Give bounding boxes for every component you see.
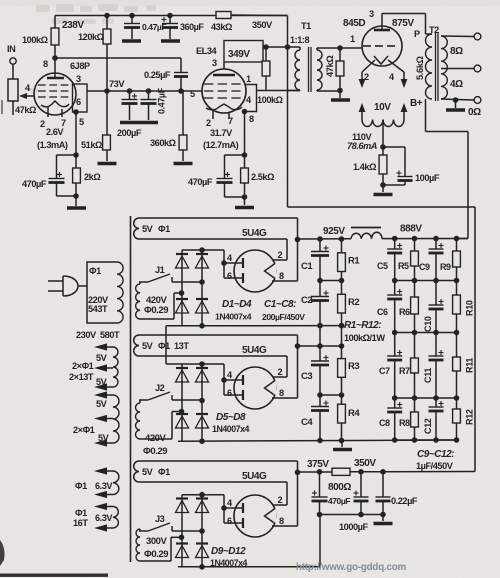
node output unit3 bbox=[295, 470, 301, 476]
winding 10V bbox=[359, 103, 408, 127]
node AC left unit2 bbox=[179, 409, 185, 415]
wire 350V feed bbox=[288, 16, 476, 472]
label pin5 EL34 bbox=[190, 89, 195, 99]
label pin8 tube unit1 bbox=[279, 271, 284, 281]
node C-col 325.6 bbox=[317, 323, 323, 329]
diode D2 bbox=[196, 254, 209, 268]
node AC left unit3 bbox=[179, 535, 185, 541]
label J1 bbox=[155, 265, 165, 275]
ground T1 bbox=[331, 91, 350, 101]
node R-col 395 bbox=[339, 392, 345, 398]
label pin1 EL34 bbox=[246, 74, 251, 84]
label pin3 EL34 bbox=[212, 58, 217, 68]
node AC left unit1 bbox=[179, 290, 185, 296]
label C12 bbox=[423, 418, 433, 434]
winding 5V loop unit1 bbox=[134, 218, 298, 239]
label pin4 U1 bbox=[25, 83, 31, 93]
terminal 4ohm bbox=[474, 65, 481, 72]
wire 888V rail bbox=[382, 238, 468, 240]
wire bridge to anodes unit3 bbox=[202, 495, 224, 508]
tube U3 845 bbox=[362, 14, 402, 67]
label R10 bbox=[465, 300, 475, 316]
label pin2 tube unit2 bbox=[278, 367, 283, 377]
node rail 120k bbox=[104, 13, 110, 19]
node right bank 456.5,398 bbox=[454, 395, 460, 401]
ground T2 bbox=[446, 100, 465, 110]
label 238V bbox=[62, 20, 84, 31]
label 47k 845 bbox=[325, 56, 335, 78]
label pin8 U1 bbox=[43, 59, 48, 69]
label C9-C12 note bbox=[416, 449, 454, 471]
label pin2 EL34 bbox=[206, 118, 211, 128]
node pin8 EL34 bbox=[242, 109, 248, 115]
label 5.6k bbox=[415, 56, 425, 80]
label C10 bbox=[423, 316, 433, 332]
label 2k bbox=[84, 172, 100, 182]
label 220V bbox=[88, 295, 109, 305]
diode D5 bbox=[176, 368, 189, 382]
label pin8 tube unit2 bbox=[279, 388, 284, 398]
wire cathode U1 bbox=[75, 112, 77, 155]
node right bank 456.5,332.5 bbox=[454, 330, 460, 336]
label Φ0.29 unit3 bbox=[144, 549, 168, 560]
node C-col 280.5 bbox=[317, 278, 323, 284]
resistor R8 bbox=[411, 398, 419, 440]
label 5V W1b bbox=[96, 377, 108, 387]
mains plug bbox=[48, 276, 87, 296]
label 5V W1a bbox=[96, 353, 108, 363]
label pin4 EL34 bbox=[246, 95, 252, 105]
label pin4 unit3 bbox=[227, 498, 233, 508]
node bridge top unit2 bbox=[199, 361, 205, 367]
node R-col 325.6 bbox=[339, 323, 345, 329]
label 51k bbox=[81, 140, 102, 150]
node right bank 456.5,280.5 bbox=[454, 278, 460, 284]
label R4 bbox=[348, 408, 360, 419]
label J3 bbox=[155, 514, 165, 524]
node anode bracket unit3 bbox=[221, 505, 227, 511]
tube U1 6J8P bbox=[34, 58, 76, 117]
label pin2 845 bbox=[364, 72, 369, 82]
resistor 51k divider bottom bbox=[98, 91, 117, 164]
resistor R12 bbox=[453, 398, 461, 440]
wire stack link unit1-unit2 bbox=[166, 326, 182, 364]
node og2 bbox=[358, 512, 364, 518]
label R1 bbox=[348, 256, 360, 267]
label 2x13T W1 bbox=[69, 372, 94, 382]
node R-col 346 bbox=[339, 343, 345, 349]
label D5~D8 unit2 bbox=[216, 412, 246, 423]
node bridge2 bottom bbox=[199, 438, 205, 444]
node right bank 394.7,440 bbox=[392, 437, 398, 443]
label 375V bbox=[307, 459, 329, 470]
label 100k bbox=[22, 35, 48, 45]
transformer T1 bbox=[288, 47, 341, 92]
label C4 bbox=[301, 417, 313, 428]
label 4ohm bbox=[450, 79, 463, 90]
capacitor C12 bbox=[429, 398, 444, 440]
wire anode 845 bbox=[382, 14, 426, 35]
wire bridge to anodes unit1 bbox=[202, 250, 224, 263]
resistor 43k bbox=[216, 12, 288, 19]
label J2 bbox=[155, 383, 165, 393]
label 360uF bbox=[180, 22, 204, 32]
watermark smudge bbox=[30, 4, 156, 93]
primary box 220V bbox=[87, 262, 123, 323]
label pin2 tube unit1 bbox=[278, 250, 283, 260]
label 16T W4 bbox=[73, 518, 88, 528]
winding 5V-5V W1 bbox=[94, 343, 118, 390]
label 200µF/450V unit1 bbox=[262, 312, 305, 322]
node right bank 414.5,332.5 bbox=[412, 330, 418, 336]
wire pin2 unit1 bbox=[273, 239, 287, 260]
label T2 bbox=[429, 25, 439, 35]
label pin1 845 bbox=[350, 34, 355, 44]
label IN bbox=[7, 44, 16, 54]
node pin5 U1 bbox=[73, 109, 79, 115]
wire anode U1 to cap bbox=[55, 58, 181, 73]
node cathode bottom1 bbox=[73, 193, 79, 199]
label P bbox=[414, 29, 420, 39]
node T1 sec bottom bbox=[337, 88, 343, 94]
label Phi1 unit3 bbox=[158, 467, 170, 477]
wire output unit2 bbox=[298, 345, 342, 347]
label 1000uF bbox=[339, 522, 368, 532]
wire pin8 unit2 bbox=[272, 397, 298, 399]
diode D12 bbox=[196, 544, 209, 558]
capacitor 0.25uF coupling bbox=[174, 73, 188, 92]
diode bridge unit1 column right bbox=[201, 250, 203, 326]
label 78.6mA bbox=[347, 141, 377, 151]
label R9 bbox=[440, 262, 451, 272]
resistor R7 bbox=[411, 333, 419, 399]
resistor 800ohm bbox=[332, 468, 350, 475]
wire bridge1 bottom rail bbox=[166, 325, 342, 327]
label 1.4k bbox=[353, 162, 376, 172]
capacitor C6 bbox=[387, 281, 402, 333]
node bridge top unit3 bbox=[199, 492, 205, 498]
wire B+ feed bbox=[426, 99, 469, 239]
label 300V unit3 bbox=[146, 536, 168, 547]
choke filter bbox=[351, 228, 382, 239]
label pin3 U1 bbox=[76, 74, 81, 84]
wire top 238V rail bbox=[55, 16, 288, 29]
wire row right bank 332.5 bbox=[395, 332, 457, 334]
capacitor C9 bbox=[429, 239, 444, 281]
label pin6 unit3 bbox=[227, 516, 232, 526]
url watermark bbox=[296, 562, 407, 573]
label pin2 tube unit3 bbox=[278, 495, 283, 505]
capacitor C7 bbox=[387, 333, 402, 399]
ground 845 cathode bbox=[374, 185, 393, 195]
node right bank 414.5,398 bbox=[412, 395, 418, 401]
label 110V bbox=[352, 132, 372, 142]
label Phi1 W4 bbox=[75, 508, 87, 518]
wire 888 corner bbox=[457, 238, 469, 240]
ground EL34 cathode bbox=[235, 197, 254, 208]
node T1 sec top bbox=[337, 45, 343, 51]
node rail cap2 bbox=[167, 13, 173, 19]
resistor 100k plate load bbox=[51, 28, 59, 58]
node right bank 456.5,238.5 bbox=[454, 236, 460, 242]
node divider tap bbox=[104, 88, 110, 94]
label pin5 U1 bbox=[79, 117, 84, 127]
node right bank 436,238.5 bbox=[433, 236, 439, 242]
node right bank 394.7,398 bbox=[392, 395, 398, 401]
winding HV unit1 bbox=[136, 282, 182, 319]
node cathode bottom2 bbox=[242, 194, 248, 200]
node output unit2 bbox=[295, 343, 301, 349]
diode D10 bbox=[196, 499, 209, 513]
label pin4 unit2 bbox=[227, 370, 233, 380]
wire row4 left bank bbox=[320, 394, 342, 396]
node bridge top unit1 bbox=[199, 247, 205, 253]
label 0.25uF bbox=[144, 70, 171, 80]
label 349V bbox=[228, 49, 250, 60]
capacitor C11 bbox=[429, 333, 444, 399]
node AC right unit3 bbox=[199, 528, 205, 534]
label 73V bbox=[109, 79, 125, 89]
node R-col 280.5 bbox=[339, 278, 345, 284]
terminal 0ohm bbox=[474, 97, 481, 104]
filament leads 845 bbox=[359, 60, 408, 88]
label 100k EL34 bbox=[257, 95, 283, 105]
label pin6 U1 bbox=[76, 97, 81, 107]
node AC right unit1 bbox=[199, 279, 205, 285]
resistor R3 bbox=[338, 346, 346, 395]
label 845D bbox=[343, 18, 365, 29]
label 5U4G unit2 bbox=[242, 345, 267, 356]
wire 925V rail bbox=[298, 238, 352, 240]
diode bridge unit2 column left bbox=[181, 364, 183, 441]
capacitor 470uF stage1 bbox=[49, 155, 77, 196]
label 5V unit1 bbox=[142, 224, 154, 234]
capacitor 0.47uF grid bbox=[139, 91, 158, 123]
node C-col 440.5 bbox=[317, 438, 323, 444]
diode D9 bbox=[176, 499, 189, 513]
label 5V unit3 bbox=[142, 467, 154, 477]
wire cathode bus unit1 bbox=[297, 218, 299, 281]
label 5V unit2 bbox=[142, 341, 154, 351]
node right bank 414.5,238.5 bbox=[412, 236, 418, 242]
diode bridge unit3 column right bbox=[201, 495, 203, 567]
label 1.3mA bbox=[37, 140, 68, 150]
label Φ0.29 unit2 bbox=[143, 446, 167, 457]
capacitor 470uF output bbox=[312, 472, 328, 515]
label Φ0.29 unit1 bbox=[144, 305, 168, 316]
node right bank 414.5,280.5 bbox=[412, 278, 418, 284]
label pin3 845 bbox=[369, 9, 374, 19]
wire row2 left bank bbox=[320, 280, 342, 282]
wire ground rail bbox=[178, 440, 457, 441]
label pin6 unit1 bbox=[227, 271, 232, 281]
label D1~D4 unit1 bbox=[222, 299, 252, 310]
label 543T bbox=[88, 304, 108, 314]
node 022 top bbox=[380, 469, 386, 475]
resistor R11 bbox=[453, 333, 461, 399]
label C1 bbox=[301, 261, 313, 272]
resistor R6 bbox=[411, 281, 419, 333]
switch J1 bbox=[139, 274, 202, 282]
node grid EL34 bbox=[178, 88, 184, 94]
diode D11 bbox=[176, 544, 189, 558]
capacitor C1 bbox=[311, 239, 329, 281]
wire bridge3 bottom rail bbox=[178, 566, 320, 568]
winding HV unit2 bbox=[136, 400, 182, 439]
node 375V bbox=[317, 469, 323, 475]
label 888V bbox=[400, 224, 422, 235]
wire bridge top unit2 bbox=[182, 363, 202, 365]
label B+ bbox=[410, 98, 423, 109]
node right bank 436,398 bbox=[433, 395, 439, 401]
label 1N4007x4 unit2 bbox=[212, 424, 250, 434]
node CT top bbox=[380, 144, 386, 150]
label 0.22uF bbox=[391, 496, 418, 506]
label 0ohm bbox=[468, 107, 481, 118]
wire bridge top unit1 bbox=[182, 249, 202, 251]
resistor R10 bbox=[453, 281, 461, 333]
label 470uF EL34 bbox=[188, 177, 213, 187]
label 1N4007x4 unit3 bbox=[210, 558, 248, 568]
label pin7 EL34 bbox=[228, 116, 233, 126]
node cathode junction2 bbox=[242, 152, 248, 158]
label C11 bbox=[423, 368, 433, 383]
node bridge1 bottom bbox=[199, 323, 205, 329]
wire output 350V bbox=[350, 471, 475, 473]
label R1-R12 note bbox=[344, 320, 385, 343]
node right bank 394.7,238.5 bbox=[392, 236, 398, 242]
node R-col 239 bbox=[339, 236, 345, 242]
node right bank 456.5,440 bbox=[454, 437, 460, 443]
label 925V bbox=[323, 226, 345, 237]
box 349V bbox=[224, 41, 263, 63]
wire grid 845 bbox=[340, 47, 362, 49]
wire row right bank 398 bbox=[395, 397, 457, 399]
switch J2 bbox=[139, 392, 202, 400]
resistor 47k grid 845 bbox=[336, 48, 344, 91]
node output unit1 bbox=[295, 237, 301, 243]
resistor R2 bbox=[338, 281, 346, 326]
label 5U4G unit1 bbox=[242, 228, 267, 239]
resistor R9 bbox=[453, 239, 461, 281]
ground output bbox=[374, 515, 393, 524]
label 420V unit2 bbox=[145, 433, 167, 444]
label 470uF output bbox=[328, 496, 350, 506]
winding 6.3V W3 bbox=[94, 467, 119, 498]
diode bridge unit2 column right bbox=[201, 364, 203, 441]
node anode bracket unit1 bbox=[221, 260, 227, 266]
label C7 bbox=[379, 366, 390, 376]
label 0.47uF bbox=[142, 22, 166, 32]
wire pin2 unit3 bbox=[273, 482, 287, 505]
wire ladder link left bbox=[319, 326, 321, 346]
label pin4 845 bbox=[389, 72, 395, 82]
label 1:1:8 bbox=[290, 35, 310, 45]
wire output 375V bbox=[298, 471, 333, 473]
label phi1 primary bbox=[89, 266, 101, 276]
node og1 bbox=[317, 512, 323, 518]
diode D4 bbox=[196, 299, 209, 313]
resistor R4 bbox=[338, 395, 346, 441]
label 2.6V bbox=[46, 127, 64, 137]
label C2 bbox=[301, 295, 312, 306]
diode bridge unit3 column left bbox=[181, 495, 183, 567]
resistor 120k divider top bbox=[103, 16, 111, 92]
capacitor C8 bbox=[387, 398, 402, 440]
label 420V unit1 bbox=[146, 295, 168, 306]
diode D3 bbox=[176, 299, 189, 313]
label C5 bbox=[377, 261, 388, 271]
winding 5V loop unit3 bbox=[134, 461, 298, 482]
wire unit3 return bbox=[319, 515, 321, 567]
transformer T2 bbox=[426, 33, 475, 101]
label 120k bbox=[78, 32, 104, 42]
winding 5V loop unit2 bbox=[134, 335, 298, 356]
resistor R5 bbox=[411, 239, 419, 281]
node right bank 414.5,440 bbox=[412, 437, 418, 443]
label R8 bbox=[399, 418, 410, 428]
capacitor 0.47uF rail bbox=[122, 16, 141, 42]
label 100uF bbox=[415, 173, 440, 183]
capacitor C3 bbox=[311, 346, 329, 395]
resistor R1 bbox=[338, 239, 346, 281]
label Phi1 W3 bbox=[75, 481, 87, 491]
label R3 bbox=[348, 361, 359, 372]
label 800ohm bbox=[328, 482, 351, 493]
resistor 100k EL34 bbox=[262, 47, 270, 91]
diode D8 bbox=[196, 414, 209, 428]
wire bridge to anodes unit2 bbox=[202, 364, 224, 380]
label 6.3V W4 bbox=[95, 513, 113, 523]
capacitor 200uF grid bbox=[120, 91, 139, 123]
label 13T unit2 bbox=[174, 341, 189, 351]
label C3 bbox=[301, 371, 312, 382]
label pin8 EL34 bbox=[249, 114, 254, 124]
node right bank 394.7,280.5 bbox=[392, 278, 398, 284]
diode bridge unit1 column left bbox=[181, 250, 183, 326]
label 580T bbox=[100, 330, 120, 340]
node 73V bbox=[127, 88, 133, 94]
diode D6 bbox=[196, 368, 209, 382]
node 350V bbox=[358, 469, 364, 475]
label pin4 unit1 bbox=[227, 253, 233, 263]
node og3 bbox=[380, 512, 386, 518]
node CT bottom bbox=[380, 182, 386, 188]
winding 5V-5V W2 bbox=[94, 391, 119, 446]
wire grid EL34 bbox=[87, 90, 202, 92]
wire row right bank 440 bbox=[395, 439, 457, 441]
label T1 bbox=[301, 21, 311, 31]
label 6.3V W3 bbox=[95, 481, 113, 491]
label 0.47uF grid bbox=[157, 87, 167, 114]
node C-col 239 bbox=[317, 236, 323, 242]
node bridge3 bottom bbox=[199, 564, 205, 570]
label 47k input bbox=[15, 105, 36, 115]
wire cathode bus unit2 bbox=[297, 335, 299, 398]
label 10V bbox=[374, 102, 391, 113]
capacitor 360uF rail bbox=[161, 16, 180, 42]
node C-col 395 bbox=[317, 392, 323, 398]
node rail cap1 bbox=[129, 13, 135, 19]
node right bank 436,440 bbox=[433, 437, 439, 443]
node right bank 436,332.5 bbox=[433, 330, 439, 336]
label 6J8P bbox=[70, 61, 90, 71]
winding 6.3V W4 bbox=[94, 503, 118, 532]
label 350V bbox=[252, 20, 273, 30]
resistor 2.5k cathode bbox=[241, 155, 249, 197]
label R12 bbox=[465, 409, 475, 425]
label 2xPhi1 W2 bbox=[73, 425, 95, 435]
